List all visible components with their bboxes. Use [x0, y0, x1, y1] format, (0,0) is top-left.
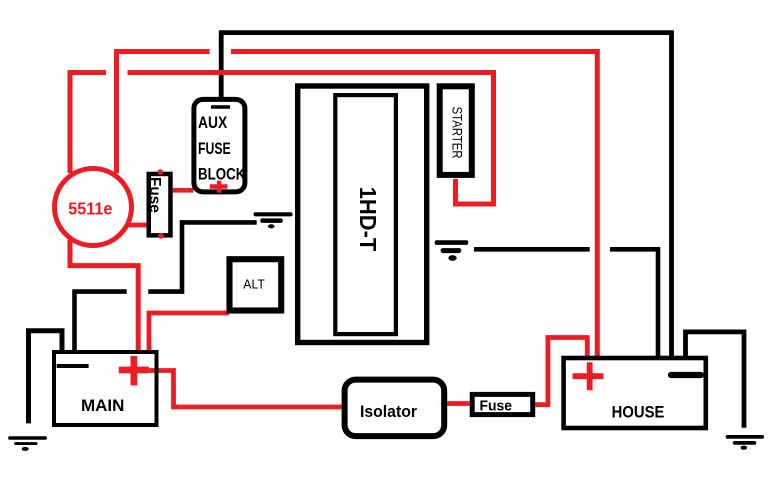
fuse F1 vertical — [146, 174, 171, 235]
battery HOUSE negative terminal mark — [671, 372, 701, 378]
ground chassis bottom-left — [8, 436, 47, 451]
solenoid 5511e — [55, 169, 132, 246]
ground chassis bottom-right — [726, 435, 764, 450]
svg-text:STARTER: STARTER — [450, 107, 466, 159]
svg-text:AUX: AUX — [198, 113, 227, 132]
starter red terminal dot — [453, 179, 458, 184]
starter motor — [440, 86, 472, 175]
svg-text:Fuse: Fuse — [146, 177, 163, 213]
svg-text:MAIN: MAIN — [81, 397, 124, 415]
fuse F2 horizontal — [472, 394, 533, 414]
battery HOUSE — [564, 358, 706, 428]
wire black top AUX-to-HOUSE — [221, 33, 671, 357]
alternator ALT — [230, 259, 282, 310]
wire red fuse-to-HOUSE-positive — [535, 338, 587, 405]
wire red MAIN-positive-to-Isolator — [149, 371, 342, 408]
battery MAIN negative terminal mark — [57, 364, 89, 368]
ground engine left — [254, 212, 293, 228]
svg-text:FUSE: FUSE — [198, 139, 231, 158]
ground engine right — [435, 240, 469, 261]
wire black MAIN-negative-to-chassis-ground — [29, 331, 63, 424]
svg-text:Isolator: Isolator — [360, 402, 417, 421]
svg-text:Fuse: Fuse — [480, 399, 513, 415]
battery MAIN positive terminal plus — [119, 356, 149, 385]
wire black engine-ground-to-HOUSE right segment — [610, 249, 658, 357]
svg-text:ALT: ALT — [243, 276, 265, 291]
engine 1HD-T outer block — [298, 86, 427, 343]
wire red Isolator-to-fuse — [447, 401, 470, 406]
fuse F1 top terminal dot — [158, 169, 164, 175]
wire black MAIN-negative-to-engine-ground right segment — [148, 222, 256, 291]
aux fuse block negative mark — [211, 105, 230, 109]
isolator — [345, 380, 445, 437]
svg-text:1HD-T: 1HD-T — [355, 187, 381, 252]
aux fuse block — [194, 99, 245, 191]
battery MAIN — [54, 352, 157, 425]
svg-text:HOUSE: HOUSE — [612, 404, 665, 422]
wire red top 5511e-to-HOUSE-positive right segment — [231, 52, 597, 359]
wire red 5511e-to-STARTER left segment — [70, 73, 106, 174]
wire red fuse-to-AUX-block — [173, 188, 194, 193]
engine 1HD-T inner block — [335, 95, 396, 334]
wire red 5511e-to-STARTER right segment — [128, 73, 494, 205]
wire black MAIN-negative-to-engine-ground left segment — [75, 292, 127, 352]
wire black engine-ground-to-HOUSE left segment — [474, 247, 590, 252]
svg-text:5511e: 5511e — [68, 199, 112, 219]
wire red ALT-to-MAIN-positive — [149, 313, 229, 352]
wire red top 5511e-to-HOUSE-positive left segment — [117, 52, 210, 174]
fuse F1 bottom terminal dot — [158, 233, 164, 239]
battery HOUSE positive terminal plus — [573, 362, 604, 390]
aux fuse block positive plus — [210, 181, 228, 193]
wire red 5511e-to-fuse — [128, 223, 147, 228]
wire red 5511e-to-MAIN-positive — [70, 240, 138, 352]
svg-text:BLOCK: BLOCK — [198, 164, 245, 183]
wire black HOUSE-negative-to-ground — [686, 332, 745, 428]
